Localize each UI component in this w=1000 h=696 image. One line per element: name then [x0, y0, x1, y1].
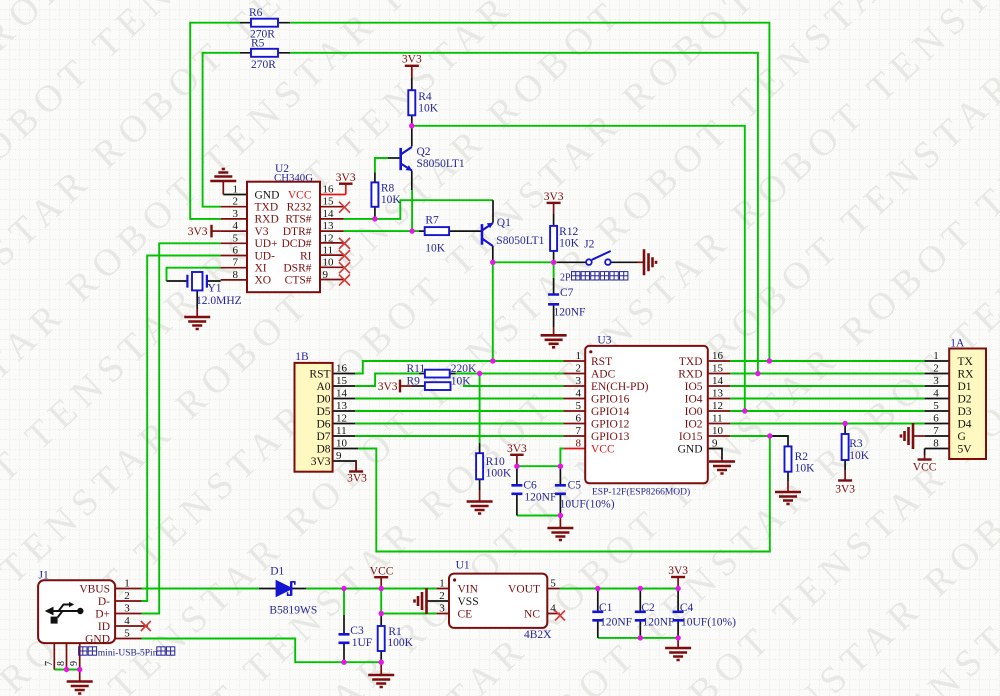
- IC U1 regulator body: [449, 574, 547, 628]
- power 3V3 bar above U2 VCC: [339, 182, 353, 184]
- crystal Y1: [187, 272, 207, 290]
- svg-text:VBUS: VBUS: [79, 583, 110, 595]
- wire R4 leads: [411, 78, 413, 126]
- svg-text:D0: D0: [316, 393, 330, 405]
- wire R2 leads: [770, 436, 788, 481]
- svg-text:R10: R10: [486, 456, 505, 468]
- svg-text:270R: 270R: [251, 59, 276, 71]
- X mark U2 pin12: [339, 238, 350, 249]
- svg-text:12.0MHZ: 12.0MHZ: [196, 295, 242, 307]
- svg-text:8: 8: [576, 438, 582, 450]
- capacitor C5 plates: [555, 485, 566, 494]
- svg-text:U3: U3: [597, 335, 611, 347]
- resistor R2: [785, 446, 792, 471]
- svg-text:Q2: Q2: [417, 146, 431, 158]
- svg-text:J2: J2: [584, 239, 594, 251]
- svg-text:J1: J1: [39, 569, 49, 581]
- resistor R7: [425, 227, 449, 235]
- wire D1 leads: [259, 588, 306, 590]
- svg-text:16: 16: [712, 350, 724, 362]
- svg-text:5: 5: [550, 578, 556, 590]
- X mark J1 ID pin: [141, 621, 151, 631]
- svg-text:6: 6: [233, 245, 239, 257]
- wire IO4 row (U3.IO4 to 1A.D2): [730, 398, 924, 400]
- svg-text:6: 6: [933, 413, 939, 425]
- svg-text:R5: R5: [251, 37, 265, 49]
- resistor R10: [476, 453, 483, 479]
- svg-text:1B: 1B: [295, 351, 309, 363]
- svg-text:D1: D1: [958, 381, 972, 393]
- svg-text:3V3: 3V3: [336, 172, 356, 184]
- svg-text:C7: C7: [560, 287, 574, 299]
- svg-text:100K: 100K: [387, 637, 413, 649]
- svg-text:9: 9: [336, 450, 342, 462]
- svg-text:12: 12: [712, 400, 723, 412]
- svg-text:9: 9: [712, 438, 718, 450]
- svg-text:5: 5: [124, 628, 130, 640]
- svg-text:UD+: UD+: [255, 238, 278, 250]
- svg-text:15: 15: [712, 363, 724, 375]
- svg-text:8: 8: [56, 661, 67, 666]
- svg-text:8: 8: [933, 438, 939, 450]
- transistor Q1 S8050: [482, 223, 493, 246]
- svg-text:R8: R8: [381, 183, 395, 195]
- X mark U1 NC pin: [555, 611, 565, 621]
- wire IO15 row (U3.IO15 to R2): [730, 435, 788, 437]
- svg-text:16: 16: [336, 363, 348, 375]
- svg-text:DTR#: DTR#: [283, 226, 312, 238]
- svg-text:5: 5: [933, 400, 939, 412]
- wire Q2 emitter drop: [411, 190, 413, 231]
- wire net D8 (1B.D8 down, bottom run, up to IO15 row): [358, 436, 770, 552]
- svg-text:V3: V3: [255, 226, 269, 238]
- svg-text:4B2X: 4B2X: [524, 629, 552, 641]
- svg-text:10K: 10K: [559, 238, 580, 250]
- wire net UD+ (U2.UD+ to J1.D+): [142, 243, 221, 613]
- wire C6/C5 bottom link: [517, 515, 561, 517]
- svg-text:D2: D2: [958, 393, 972, 405]
- svg-text:1A: 1A: [950, 338, 965, 350]
- svg-text:10: 10: [336, 438, 348, 450]
- svg-text:GPIO16: GPIO16: [591, 393, 630, 405]
- wire reset node down to RST row: [492, 262, 494, 361]
- svg-text:mini-USB-5Pin: mini-USB-5Pin: [98, 648, 158, 658]
- power 3V3 port above C6: [516, 455, 518, 466]
- svg-text:DSR#: DSR#: [283, 263, 311, 275]
- svg-text:2: 2: [576, 363, 582, 375]
- svg-text:3V3: 3V3: [835, 484, 855, 496]
- wire Q1 emitter lead: [492, 246, 494, 262]
- svg-text:TX: TX: [958, 356, 974, 368]
- svg-text:3V3: 3V3: [402, 54, 422, 66]
- svg-text:11: 11: [323, 245, 334, 257]
- capacitor C4 plates: [673, 612, 684, 621]
- power VCC port under 1A: [924, 455, 926, 460]
- svg-text:9: 9: [323, 269, 329, 281]
- resistor R5: [251, 49, 278, 57]
- svg-text:RST: RST: [309, 368, 330, 380]
- wire USB ground run: [142, 639, 382, 663]
- svg-text:UD-: UD-: [255, 250, 276, 262]
- wire ADC row right of R11: [456, 373, 564, 375]
- wire J1 shield pins link: [54, 669, 79, 671]
- wire Q2 collector lead: [411, 127, 413, 147]
- X mark U2 pin10: [339, 262, 350, 273]
- svg-text:TXD: TXD: [255, 202, 279, 214]
- resistor R11: [425, 370, 450, 378]
- ground lead U2 pin1: [222, 181, 224, 195]
- svg-text:DCD#: DCD#: [281, 238, 311, 250]
- svg-text:RX: RX: [958, 368, 975, 380]
- wire net R5 left (U2.TXD to R5): [203, 53, 240, 207]
- diode D1 B5819WS: [277, 581, 295, 595]
- svg-text:D5: D5: [316, 406, 330, 418]
- ground symbol U2 pin1 (pointing up): [210, 169, 236, 181]
- wire J2 left lead: [557, 261, 586, 263]
- power port labels: [188, 54, 937, 578]
- svg-text:13: 13: [323, 220, 335, 232]
- wire Q2 emitter lead: [411, 171, 413, 191]
- svg-text:R2: R2: [795, 451, 809, 463]
- wire net RTS (U2.RTS# to R8 bottom to Q1 top): [344, 200, 493, 219]
- wire net UD- (U2.UD- to J1.D-): [142, 256, 221, 602]
- svg-text:CTS#: CTS#: [285, 275, 312, 287]
- svg-text:4: 4: [933, 388, 939, 400]
- wire EN lead black: [412, 385, 425, 387]
- svg-text:RI: RI: [300, 250, 312, 262]
- usb icon in J1: [52, 605, 79, 618]
- wire A0 jog to ADC row: [355, 374, 419, 387]
- svg-text:VIN: VIN: [458, 583, 479, 595]
- svg-text:16: 16: [323, 184, 335, 196]
- svg-text:IO5: IO5: [685, 381, 703, 393]
- svg-text:3V3: 3V3: [347, 473, 367, 485]
- svg-text:VCC: VCC: [370, 566, 394, 578]
- pin stubs 1B right: [333, 374, 359, 449]
- wire ADC node down to R10: [479, 374, 481, 444]
- power 3V3 port under R3: [844, 470, 846, 481]
- pin stubs J1 right: [115, 589, 148, 639]
- capacitor C2 plates: [635, 612, 646, 621]
- wire VBUS row (D1 to VCC to U1.VIN): [306, 588, 437, 590]
- svg-text:10UF(10%): 10UF(10%): [560, 499, 615, 511]
- capacitor C1 plates: [592, 612, 603, 621]
- svg-text:CE: CE: [458, 608, 473, 620]
- wire R8 leads: [374, 173, 376, 219]
- wire EN row right of R9: [463, 385, 564, 387]
- wire C1-C4 ground rail: [598, 637, 678, 639]
- svg-text:1UF: 1UF: [352, 637, 372, 649]
- power 3V3 port under 1B pin9: [333, 461, 357, 472]
- svg-text:3: 3: [933, 375, 939, 387]
- svg-text:15: 15: [323, 196, 335, 208]
- svg-text:D4: D4: [958, 418, 972, 430]
- power 3V3 port at R9: [400, 380, 412, 393]
- wire RST row (1B jog, U3.RST): [355, 361, 564, 374]
- wire D6 row (1B.D6 to U3.GPIO12): [355, 423, 564, 425]
- svg-text:S8050LT1: S8050LT1: [496, 235, 544, 247]
- svg-text:4: 4: [233, 220, 239, 232]
- svg-text:1: 1: [576, 350, 582, 362]
- pin stubs U2 right: [320, 207, 344, 280]
- svg-text:120NF: 120NF: [643, 616, 675, 628]
- ground symbol below U3 pin9: [721, 459, 723, 462]
- svg-text:3: 3: [576, 375, 582, 387]
- 1B pin names: [309, 368, 330, 468]
- svg-text:Q1: Q1: [497, 217, 511, 229]
- svg-text:IO2: IO2: [685, 418, 703, 430]
- svg-text:G: G: [958, 431, 966, 443]
- svg-text:R12: R12: [559, 226, 578, 238]
- svg-text:VCC: VCC: [913, 462, 937, 474]
- svg-text:C4: C4: [680, 602, 694, 614]
- svg-text:14: 14: [712, 375, 724, 387]
- svg-text:5V: 5V: [958, 443, 973, 455]
- svg-text:10K: 10K: [381, 194, 402, 206]
- wire IO2 row (U3.IO2 to 1A.D4, R3 tap): [730, 423, 924, 425]
- power VCC port at D1: [380, 577, 382, 588]
- svg-text:3V3: 3V3: [507, 443, 527, 455]
- svg-text:11: 11: [336, 425, 347, 437]
- svg-text:GND: GND: [678, 443, 703, 455]
- X mark U2 pin9: [339, 275, 350, 286]
- wire C7 leads: [553, 278, 555, 327]
- svg-text:TXD: TXD: [679, 356, 703, 368]
- wire R7 leads: [419, 230, 481, 232]
- pin stubs U1: [437, 589, 560, 614]
- resistor R12: [550, 226, 557, 251]
- wire U3 VCC feed (3V3/C6/C5 to U3.VCC): [517, 449, 564, 467]
- svg-text:XI: XI: [255, 263, 267, 275]
- svg-text:RXD: RXD: [678, 368, 702, 380]
- U2 pin names: [255, 189, 312, 286]
- ground symbol below R2: [787, 481, 789, 492]
- capacitor C3 plates: [339, 634, 350, 643]
- wire R10 leads: [479, 443, 481, 490]
- ground symbol below J1 shield: [79, 670, 81, 682]
- svg-text:6: 6: [576, 413, 582, 425]
- wire U3 pin9 gnd: [709, 449, 722, 460]
- svg-text:10: 10: [712, 425, 724, 437]
- svg-text:13: 13: [712, 388, 724, 400]
- svg-text:ADC: ADC: [591, 368, 616, 380]
- svg-text:C3: C3: [350, 625, 364, 637]
- wire R1 leads: [380, 614, 382, 663]
- svg-text:GND: GND: [255, 189, 280, 201]
- svg-text:ID: ID: [98, 621, 110, 633]
- wire net R5 right (R5 to ESP RXD): [290, 53, 758, 374]
- svg-text:C2: C2: [641, 602, 655, 614]
- svg-text:C1: C1: [599, 602, 613, 614]
- svg-text:R9: R9: [407, 375, 421, 387]
- wire net IO0 top (R4/Q2 collector to ESP IO0): [412, 126, 745, 411]
- svg-text:2P: 2P: [560, 272, 571, 283]
- svg-text:C6: C6: [523, 480, 537, 492]
- wire net DTR (U2.DTR# to Q2 emitter to R7): [344, 230, 419, 232]
- svg-text:5: 5: [576, 400, 582, 412]
- ground symbol at J2 right (pointing right): [637, 261, 644, 263]
- svg-text:10K: 10K: [451, 375, 472, 387]
- svg-text:7: 7: [44, 661, 55, 666]
- power 3V3 port above C4: [677, 577, 679, 589]
- ground symbol below C5: [559, 516, 561, 529]
- wire C1 leads: [597, 589, 599, 638]
- wire C2 leads: [639, 589, 641, 638]
- svg-text:12: 12: [323, 232, 334, 244]
- svg-text:13: 13: [336, 400, 348, 412]
- svg-text:D-: D-: [98, 596, 110, 608]
- svg-text:EN(CH-PD): EN(CH-PD): [591, 381, 649, 393]
- transistor Q2 S8050: [401, 147, 412, 171]
- svg-text:R7: R7: [425, 214, 439, 226]
- svg-text:100K: 100K: [486, 467, 512, 479]
- power 3V3 bar at R12: [547, 202, 561, 204]
- wire VCC down to CE row: [381, 589, 436, 614]
- svg-text:GND: GND: [85, 633, 110, 645]
- pin stubs U3 left: [564, 361, 586, 436]
- svg-text:NC: NC: [524, 608, 540, 620]
- text layer: [79, 54, 974, 646]
- wire Q1 collector lead to RTS net: [492, 200, 494, 222]
- wire R12 top lead: [553, 214, 555, 226]
- svg-text:15: 15: [336, 375, 348, 387]
- resistor R3: [842, 434, 849, 460]
- wire crystal leads: [167, 281, 221, 309]
- svg-text:10K: 10K: [795, 463, 816, 475]
- wire C4 leads: [677, 589, 679, 638]
- svg-text:D3: D3: [958, 406, 972, 418]
- header 1B body: [295, 363, 333, 472]
- wire Q2 base lead: [388, 157, 400, 159]
- svg-text:10UF(10%): 10UF(10%): [681, 616, 736, 628]
- svg-text:R11: R11: [407, 363, 426, 375]
- ground symbol at U1 VSS (pointing left): [415, 588, 427, 614]
- wire J2 right lead: [611, 261, 637, 263]
- wire IO5 row (U3.IO5 to 1A.D1): [730, 385, 924, 387]
- svg-text:RST: RST: [591, 356, 612, 368]
- svg-text:3V3: 3V3: [544, 191, 564, 203]
- svg-text:VCC: VCC: [288, 189, 312, 201]
- wire VOUT rail (U1.VOUT to C1 C2 C4 3V3): [560, 588, 678, 590]
- svg-text:GPIO14: GPIO14: [591, 406, 630, 418]
- svg-text:3V3: 3V3: [188, 226, 208, 238]
- power 3V3 bar at R4: [405, 65, 419, 67]
- power 3V3 port at U2.V3: [212, 230, 221, 232]
- svg-text:7: 7: [576, 425, 582, 437]
- svg-text:R232: R232: [287, 202, 312, 214]
- svg-text:4: 4: [124, 615, 130, 627]
- pin stubs U3 right: [709, 361, 731, 436]
- svg-text:12: 12: [336, 413, 347, 425]
- capacitor C6 plates: [511, 485, 522, 494]
- power 3V3 stub at R12: [553, 203, 555, 214]
- svg-text:10: 10: [323, 257, 335, 269]
- ground symbol below R1: [380, 662, 382, 675]
- IC U2 CH340G body: [247, 182, 320, 293]
- X mark U2 pin15: [141, 202, 565, 631]
- resistor R1: [378, 626, 385, 651]
- wire Q2 base to R8 top: [375, 158, 388, 173]
- svg-text:CH340G: CH340G: [274, 172, 313, 184]
- svg-text:D1: D1: [270, 566, 284, 578]
- svg-text:IO0: IO0: [685, 406, 703, 418]
- svg-text:14: 14: [336, 388, 348, 400]
- wire D7 row (1B.D7 to U3.GPIO13): [355, 435, 564, 437]
- svg-text:3: 3: [124, 603, 130, 615]
- svg-text:C5: C5: [568, 480, 582, 492]
- svg-text:10K: 10K: [425, 242, 446, 254]
- wire D0 row (1B.D0 to U3.GPIO16): [355, 398, 564, 400]
- svg-text:3: 3: [233, 208, 239, 220]
- wire C7 top stub: [553, 262, 555, 278]
- svg-text:3V3: 3V3: [668, 565, 688, 577]
- switch J2: [586, 251, 611, 265]
- svg-text:IO15: IO15: [679, 431, 703, 443]
- resistor R6: [251, 19, 278, 27]
- svg-text:120NF: 120NF: [554, 307, 586, 319]
- resistor R4: [408, 90, 415, 115]
- svg-text:2: 2: [933, 363, 939, 375]
- wire RXD row (U3.RXD to 1A.RX): [730, 373, 924, 375]
- svg-text:VCC: VCC: [591, 443, 615, 455]
- wire D5 row (1B.D5 to U3.GPIO14): [355, 410, 564, 412]
- pin stubs U2 left: [221, 207, 247, 280]
- ground symbol below C4: [677, 638, 679, 648]
- 1A pin names: [958, 356, 975, 456]
- wire C3 top stub: [343, 589, 345, 616]
- wire C3 leads: [343, 615, 345, 662]
- svg-text:2: 2: [439, 590, 445, 602]
- svg-text:8: 8: [233, 269, 239, 281]
- wire C6 leads: [516, 466, 518, 515]
- svg-text:7: 7: [233, 257, 239, 269]
- pin stubs 1A left: [925, 361, 950, 449]
- svg-text:A0: A0: [316, 381, 330, 393]
- svg-text:1: 1: [439, 578, 445, 590]
- pin stubs J1 bottom: [54, 643, 79, 669]
- svg-text:2: 2: [124, 590, 130, 602]
- capacitor C7 plates: [548, 295, 559, 305]
- svg-text:14: 14: [323, 208, 335, 220]
- svg-text:R6: R6: [249, 7, 263, 19]
- svg-text:2: 2: [233, 196, 239, 208]
- svg-text:5: 5: [233, 232, 239, 244]
- J1 pin names: [79, 583, 110, 645]
- wire C5 leads: [559, 466, 561, 515]
- ground symbol at 1A pin7 G (pointing left): [913, 435, 925, 437]
- wire reset node horizontal (Q1 emitter to R12 to J2): [493, 261, 557, 263]
- X mark U2 pin11: [339, 250, 350, 261]
- svg-text:11: 11: [712, 413, 723, 425]
- svg-text:XO: XO: [255, 275, 272, 287]
- svg-text:Y1: Y1: [208, 283, 222, 295]
- svg-text:U1: U1: [456, 560, 470, 572]
- svg-text:VOUT: VOUT: [508, 583, 540, 595]
- svg-text:VSS: VSS: [458, 596, 479, 608]
- ground symbol below crystal: [196, 309, 198, 317]
- wire net R6 right (R6 to ESP TXD): [290, 23, 769, 361]
- svg-text:3: 3: [439, 603, 445, 615]
- svg-text:220K: 220K: [451, 363, 477, 375]
- svg-text:120NF: 120NF: [600, 616, 632, 628]
- U1 pin names: [458, 583, 541, 620]
- svg-text:10K: 10K: [418, 102, 439, 114]
- svg-text:S8050LT1: S8050LT1: [417, 158, 465, 170]
- svg-text:R4: R4: [418, 91, 432, 103]
- svg-text:10K: 10K: [849, 450, 870, 462]
- svg-text:IO4: IO4: [685, 393, 703, 405]
- connector J1 usb body: [38, 580, 115, 643]
